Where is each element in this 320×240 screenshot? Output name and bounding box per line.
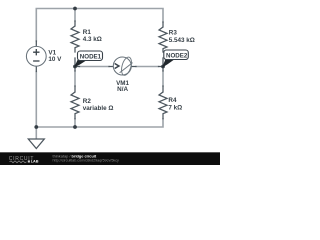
svg-text:LAB: LAB	[31, 160, 39, 164]
svg-text:R4: R4	[168, 97, 177, 104]
svg-text:R2: R2	[83, 98, 92, 105]
svg-text:10 V: 10 V	[48, 56, 62, 63]
svg-text:NODE1: NODE1	[80, 53, 102, 60]
svg-text:NODE2: NODE2	[166, 52, 188, 59]
svg-text:4.3 kΩ: 4.3 kΩ	[83, 36, 102, 43]
svg-text:5.543 kΩ: 5.543 kΩ	[169, 37, 195, 44]
svg-text:R1: R1	[83, 29, 92, 36]
svg-text:R3: R3	[169, 30, 178, 37]
svg-text:N/A: N/A	[117, 86, 128, 93]
svg-text:variable Ω: variable Ω	[83, 105, 114, 112]
svg-text:7 kΩ: 7 kΩ	[168, 104, 182, 111]
svg-text:http://circuitlab.com/c6kd29aq: http://circuitlab.com/c6kd29aqr59cv/5kcy	[53, 158, 120, 162]
